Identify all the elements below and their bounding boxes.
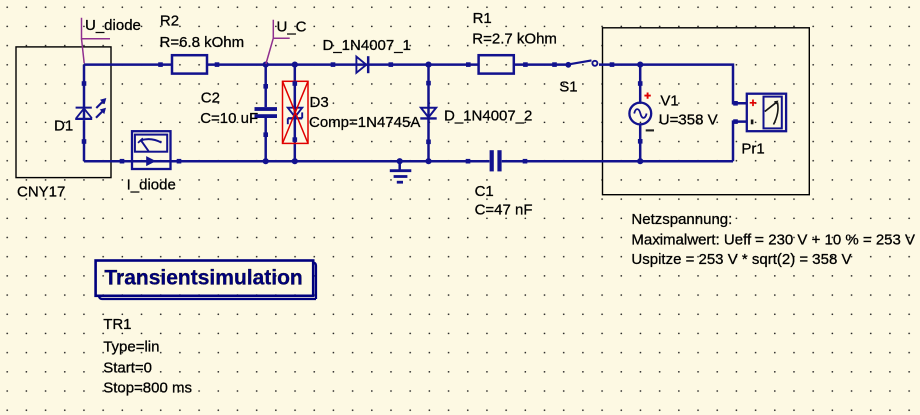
svg-text:CNY17: CNY17: [17, 183, 65, 200]
svg-text:Uspitze = 253 V * sqrt(2) = 35: Uspitze = 253 V * sqrt(2) = 358 V: [631, 251, 851, 268]
svg-text:R1: R1: [473, 10, 492, 27]
svg-text:U=358 V: U=358 V: [659, 111, 718, 128]
svg-text:TR1: TR1: [103, 316, 131, 333]
svg-text:C1: C1: [475, 183, 494, 200]
svg-text:Netzspannung:: Netzspannung:: [631, 211, 732, 228]
svg-text:D1: D1: [54, 118, 73, 135]
svg-text:U_C: U_C: [277, 19, 307, 36]
svg-text:Start=0: Start=0: [103, 359, 152, 376]
svg-text:Comp=1N4745A: Comp=1N4745A: [309, 114, 420, 131]
svg-text:C=47 nF: C=47 nF: [475, 202, 533, 219]
svg-text:S1: S1: [559, 78, 577, 95]
svg-text:Stop=800 ms: Stop=800 ms: [103, 379, 192, 396]
svg-text:C2: C2: [201, 89, 220, 106]
svg-text:Type=lin: Type=lin: [103, 338, 159, 355]
svg-text:D_1N4007_2: D_1N4007_2: [444, 108, 532, 125]
svg-text:R2: R2: [160, 12, 179, 29]
svg-text:V1: V1: [660, 93, 678, 110]
svg-text:D_1N4007_1: D_1N4007_1: [323, 37, 411, 54]
svg-text:C=10 uF: C=10 uF: [200, 110, 258, 127]
svg-text:D3: D3: [310, 94, 329, 111]
svg-text:R=6.8 kOhm: R=6.8 kOhm: [160, 34, 245, 51]
svg-text:Pr1: Pr1: [741, 141, 764, 158]
svg-text:I_diode: I_diode: [127, 177, 176, 194]
svg-text:U_diode: U_diode: [85, 17, 141, 34]
svg-text:Maximalwert: Ueff = 230 V + 10: Maximalwert: Ueff = 230 V + 10 % = 253 V: [631, 231, 915, 248]
svg-text:R=2.7 kOhm: R=2.7 kOhm: [472, 31, 557, 48]
svg-text:Transientsimulation: Transientsimulation: [104, 267, 302, 290]
